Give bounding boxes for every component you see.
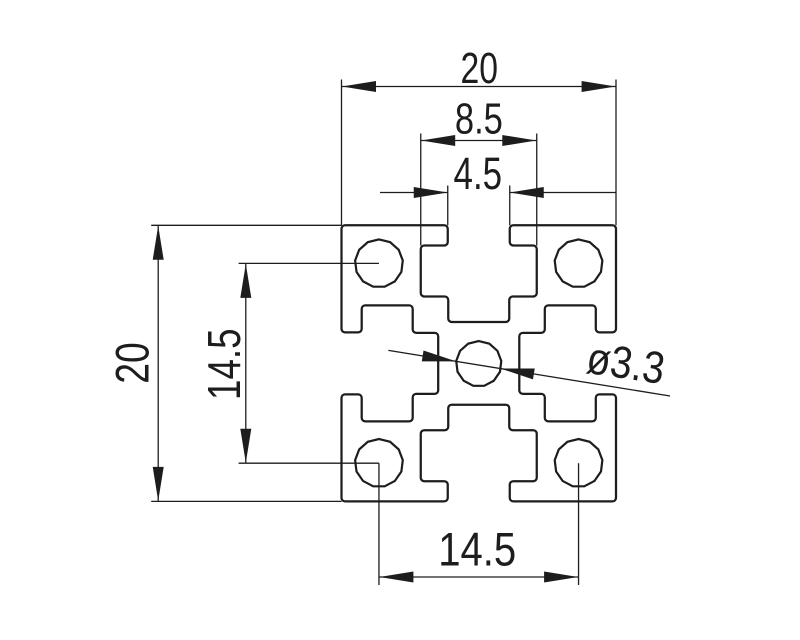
dimension 4.5: dimension line tails (380, 192, 448, 194)
svg-text:20: 20 (460, 45, 498, 93)
dimension 14.5 (left): dimension line (245, 263, 247, 463)
svg-text:14.5: 14.5 (198, 328, 250, 400)
dimension 8.5: dimension line (421, 140, 537, 142)
dimension 14.5 (left): arrowheads (240, 264, 251, 298)
dimension 20 (top): dimension line (342, 86, 617, 88)
dimension 4.5: arrowheads (outside, pointing inward) (414, 187, 448, 198)
svg-text:20: 20 (106, 342, 159, 384)
dimension 4.5 (slot opening width): extension lines (447, 186, 449, 226)
svg-text:14.5: 14.5 (438, 523, 516, 576)
dimension 20 (top): arrowheads (342, 81, 376, 92)
dimension 20 (left, overall height): extension lines (151, 224, 341, 226)
leader line for Ø3.3 center hole (388, 350, 670, 396)
svg-text:8.5: 8.5 (455, 96, 503, 144)
center hole Ø3.3 (456, 341, 501, 386)
profile outline: 2020 T-slot extrusion cross-section (342, 225, 617, 501)
dimension 14.5 (bottom): arrowheads (379, 572, 413, 583)
dimension 14.5 (bottom, hole spacing): extension lines from hole centers (378, 463, 380, 585)
dimension 20 (top, overall width): extension lines (341, 80, 343, 226)
dimension 14.5 (left, hole spacing): extension lines to hole centers (239, 262, 379, 264)
leader Ø3.3: arrowheads pointing at hole (422, 351, 456, 362)
corner hole top-left (355, 239, 403, 286)
dimension 14.5 (bottom): dimension line (379, 576, 579, 578)
svg-text:4.5: 4.5 (454, 148, 503, 199)
dimension 8.5: arrowheads (421, 135, 455, 146)
corner hole bottom-left (355, 439, 403, 486)
dimension 8.5 (slot cavity width): extension lines (420, 134, 422, 246)
corner hole top-right (555, 239, 603, 286)
dimension 20 (left): arrowheads (153, 226, 164, 260)
dimension 20 (left): dimension line (157, 225, 159, 501)
corner hole bottom-right (555, 439, 603, 486)
